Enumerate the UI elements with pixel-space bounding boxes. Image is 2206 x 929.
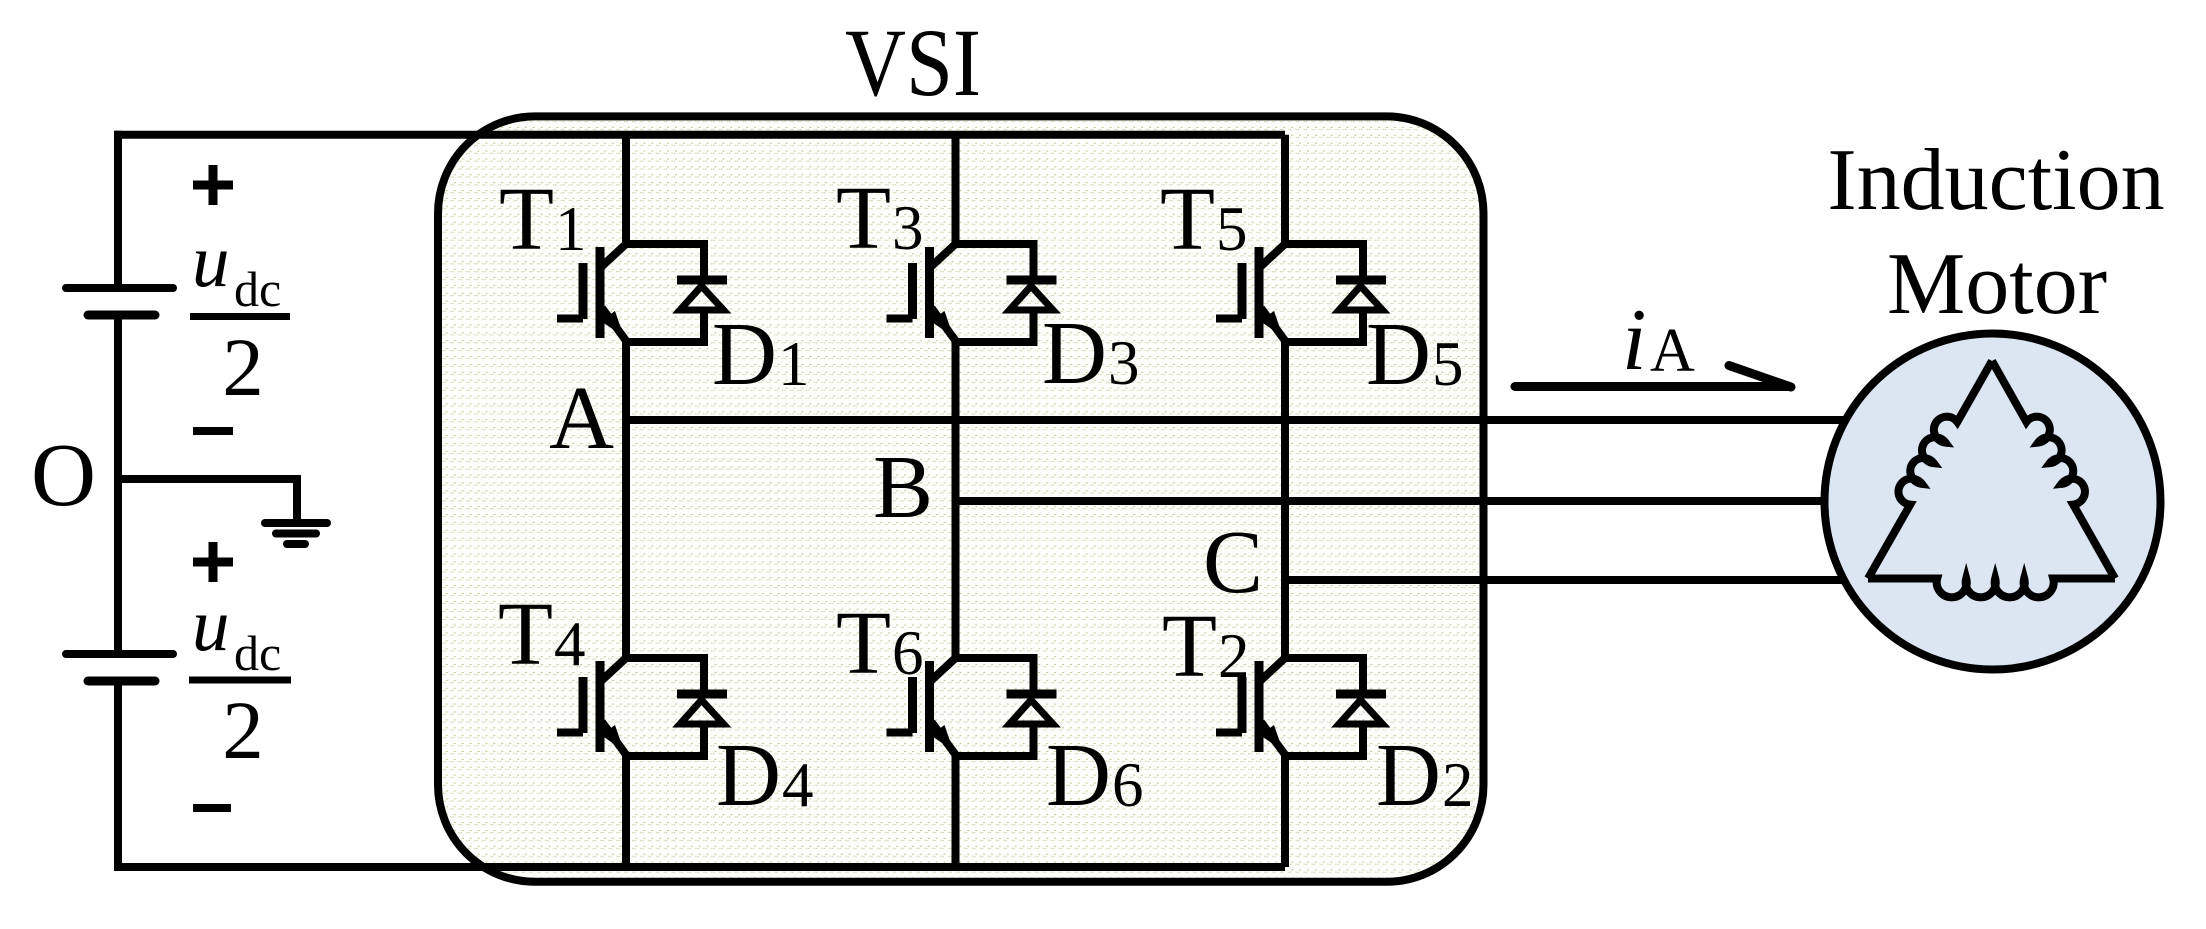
- svg-text:5: 5: [1216, 194, 1248, 264]
- svg-text:1: 1: [778, 329, 810, 399]
- svg-text:2: 2: [222, 321, 264, 413]
- svg-text:O: O: [31, 426, 96, 525]
- svg-text:C: C: [1203, 513, 1263, 612]
- svg-text:3: 3: [1108, 328, 1140, 398]
- svg-text:2: 2: [1442, 750, 1474, 820]
- svg-text:3: 3: [892, 193, 924, 263]
- svg-text:D: D: [1042, 304, 1107, 403]
- svg-text:i: i: [1622, 292, 1646, 389]
- svg-text:T: T: [1160, 170, 1215, 269]
- svg-text:A: A: [1650, 317, 1695, 385]
- svg-text:2: 2: [1218, 621, 1250, 691]
- svg-text:D: D: [1376, 726, 1441, 825]
- svg-text:u: u: [192, 584, 230, 667]
- svg-text:6: 6: [892, 618, 924, 688]
- svg-text:D: D: [716, 726, 781, 825]
- svg-text:u: u: [192, 220, 230, 303]
- svg-text:1: 1: [555, 194, 587, 264]
- svg-text:D: D: [1046, 726, 1111, 825]
- svg-text:T: T: [836, 594, 891, 693]
- svg-text:4: 4: [782, 750, 814, 820]
- svg-text:5: 5: [1432, 329, 1464, 399]
- svg-text:2: 2: [222, 684, 264, 776]
- svg-text:T: T: [836, 169, 891, 268]
- svg-text:dc: dc: [234, 261, 281, 317]
- svg-text:B: B: [873, 438, 933, 537]
- svg-text:Motor: Motor: [1887, 236, 2107, 333]
- svg-text:D: D: [1366, 305, 1431, 404]
- svg-text:VSI: VSI: [845, 9, 981, 116]
- svg-text:D: D: [712, 305, 777, 404]
- svg-text:6: 6: [1112, 750, 1144, 820]
- svg-text:T: T: [498, 585, 553, 684]
- svg-text:T: T: [499, 170, 554, 269]
- svg-text:Induction: Induction: [1827, 132, 2164, 229]
- svg-text:4: 4: [554, 609, 586, 679]
- svg-text:dc: dc: [234, 625, 281, 681]
- svg-text:A: A: [549, 369, 614, 468]
